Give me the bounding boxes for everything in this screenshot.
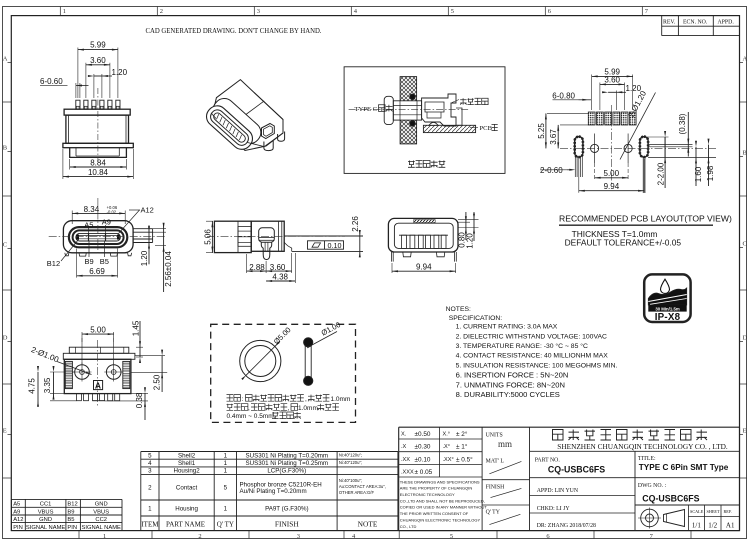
detail box dashed xyxy=(211,324,356,422)
svg-text:OTHER AREA:G/F: OTHER AREA:G/F xyxy=(339,490,375,495)
svg-text:SUS301 Ni Plating T=0.20m: SUS301 Ni Plating T=0.20mm xyxy=(245,452,328,459)
svg-text:5.06: 5.06 xyxy=(203,229,212,245)
assembly label pcb xyxy=(470,124,498,132)
dim 2.50 bottom xyxy=(131,350,167,392)
svg-text:NOTES:: NOTES: xyxy=(446,306,471,313)
svg-text:5: 5 xyxy=(450,533,453,540)
approvals xyxy=(530,488,636,529)
svg-text:± 1°: ± 1° xyxy=(456,443,468,451)
svg-text:C: C xyxy=(743,241,747,248)
svg-text:B12: B12 xyxy=(67,502,77,508)
assembly plug xyxy=(384,96,421,124)
bom table xyxy=(141,452,398,531)
svg-text:4: 4 xyxy=(148,460,152,467)
svg-text:SIGNAL NAME: SIGNAL NAME xyxy=(26,525,66,531)
svg-text:2.50: 2.50 xyxy=(153,374,162,390)
dim 3.60 side xyxy=(266,253,292,273)
svg-text:(0.38): (0.38) xyxy=(678,113,687,134)
proprietary note xyxy=(400,479,488,528)
svg-text:1: 1 xyxy=(224,506,228,513)
dim 0.38 bottom xyxy=(105,387,148,420)
dim 10.84 front xyxy=(63,149,133,179)
rear view shell xyxy=(388,218,458,252)
svg-text:5. INSULATION RESISTANCE: 10: 5. INSULATION RESISTANCE: 100 MEGOHMS MI… xyxy=(456,362,618,369)
svg-text:A9: A9 xyxy=(102,218,111,227)
side view tab and flatness xyxy=(284,236,363,251)
assembly label receptacle xyxy=(452,98,488,104)
svg-text:5.00: 5.00 xyxy=(90,326,106,335)
svg-text:D: D xyxy=(3,335,8,342)
bottom view feet row xyxy=(76,394,119,401)
svg-text:2-2.00: 2-2.00 xyxy=(656,162,665,185)
svg-text:APPD.: APPD. xyxy=(718,20,735,26)
svg-text:5: 5 xyxy=(224,485,228,492)
svg-text:4.38: 4.38 xyxy=(272,273,288,282)
assembly receptacle xyxy=(422,94,462,126)
top view outer shell xyxy=(63,221,133,253)
svg-text:2-Ø1.00: 2-Ø1.00 xyxy=(30,345,61,364)
svg-text:1.45: 1.45 xyxy=(131,320,140,336)
svg-text:ITEM: ITEM xyxy=(141,521,159,529)
svg-text:1.60: 1.60 xyxy=(694,166,703,182)
recommended pcb layout title xyxy=(559,214,732,248)
dim 2.56 top view xyxy=(153,223,173,292)
svg-text:8.84: 8.84 xyxy=(90,158,106,167)
svg-text:0.10: 0.10 xyxy=(328,241,342,250)
svg-text:5.00: 5.00 xyxy=(604,169,620,178)
pcb slot lower lines xyxy=(575,157,645,193)
svg-text:,: , xyxy=(248,405,250,412)
label B12 xyxy=(47,240,79,269)
svg-text:SUS301 Ni Plating T=0.25m: SUS301 Ni Plating T=0.25mm xyxy=(245,460,328,467)
svg-text:Shell2: Shell2 xyxy=(178,452,196,459)
detail dia1.00 leader xyxy=(307,320,342,348)
svg-text:,: , xyxy=(305,396,307,403)
svg-text:±0.30: ±0.30 xyxy=(415,444,431,451)
dwg no cell xyxy=(635,483,740,505)
rear view comb xyxy=(399,235,448,248)
side view right block xyxy=(251,221,292,259)
dim 1.20 rear xyxy=(458,212,479,249)
top view tongue stadium xyxy=(69,227,127,247)
svg-text:2.88: 2.88 xyxy=(249,263,265,272)
isometric flange xyxy=(209,94,265,148)
top view contacts xyxy=(76,233,120,241)
svg-text:TYPE C: TYPE C xyxy=(355,106,378,113)
svg-text:1: 1 xyxy=(224,468,228,475)
svg-text:Ø5.00: Ø5.00 xyxy=(272,325,293,346)
label A9 xyxy=(102,218,111,234)
svg-text:,: , xyxy=(288,405,290,412)
svg-text:7. UNMATING FORCE: 8N~20N: 7. UNMATING FORCE: 8N~20N xyxy=(456,380,565,389)
svg-text:6.69: 6.69 xyxy=(89,267,105,276)
detail chinese note xyxy=(227,395,351,420)
dim 5.06 side xyxy=(203,221,213,252)
dim 1.20 top view xyxy=(140,225,166,266)
svg-text:CC2: CC2 xyxy=(95,517,107,523)
svg-text:PART NAME: PART NAME xyxy=(166,521,205,529)
pin assignment table xyxy=(11,499,122,530)
svg-text:B9: B9 xyxy=(67,510,74,516)
svg-text:± 2°: ± 2° xyxy=(456,430,468,438)
svg-text:GND: GND xyxy=(95,502,108,508)
svg-text:MAT' L: MAT' L xyxy=(486,458,505,464)
svg-text:1/1: 1/1 xyxy=(692,521,701,529)
assembly panel wall hatched xyxy=(400,77,417,144)
svg-text:FINISH: FINISH xyxy=(275,520,299,529)
dim 2-dia1.00 bottom leader xyxy=(30,345,92,374)
svg-text:GND: GND xyxy=(39,517,52,523)
isometric front rim xyxy=(202,102,256,154)
dim 9.94 rear xyxy=(392,263,456,273)
svg-text:3.60: 3.60 xyxy=(604,75,620,84)
svg-text:PCB: PCB xyxy=(480,125,493,132)
svg-text:SCALE: SCALE xyxy=(690,509,704,514)
dim 9.94 pcb xyxy=(579,158,644,193)
svg-text:THE PRIOR WRITTEN CONSENT: THE PRIOR WRITTEN CONSENT OF xyxy=(400,511,469,516)
dim 4.38 side xyxy=(266,253,295,283)
svg-text:2. DIELECTRIC WITHSTAND VOLT: 2. DIELECTRIC WITHSTAND VOLTAGE: 100VAC xyxy=(456,333,607,340)
svg-text:DEFAULT TOLERANCE+/-0.05: DEFAULT TOLERANCE+/-0.05 xyxy=(565,238,682,248)
svg-text:±0.50: ±0.50 xyxy=(415,431,431,438)
bottom view A label xyxy=(94,380,103,390)
dim 4.75 bottom xyxy=(28,366,77,407)
svg-text:7: 7 xyxy=(650,533,654,540)
label B9 xyxy=(85,241,94,266)
svg-text:± 0.5°: ± 0.5° xyxy=(456,455,473,463)
dim 5.25 pcb xyxy=(537,113,589,148)
assembly caption xyxy=(408,161,445,168)
dim 6-0.60 front leader xyxy=(40,77,89,98)
svg-text:3.60: 3.60 xyxy=(90,56,106,65)
svg-text:1: 1 xyxy=(63,8,66,15)
dim 1.20 front xyxy=(88,68,128,98)
scale sheet ref cells xyxy=(688,505,739,531)
dim 1.60 pcb xyxy=(694,141,703,186)
svg-text:1.98: 1.98 xyxy=(706,165,715,181)
dim 2-2.00 pcb xyxy=(646,131,669,188)
svg-text:1: 1 xyxy=(224,452,228,459)
isometric view body xyxy=(211,80,283,151)
side view body xyxy=(214,221,251,252)
dim 6-0.80 pcb leader xyxy=(552,92,591,101)
dim 0.80 rear xyxy=(457,212,478,248)
svg-text:A5: A5 xyxy=(13,502,20,508)
zone tick marks and numbers top xyxy=(60,7,649,16)
zone letters right margin xyxy=(740,56,748,479)
front view pins xyxy=(76,100,120,109)
pcb pads xyxy=(588,112,636,125)
svg-text:3. TEMPERATURE RANGE: -30 °C: 3. TEMPERATURE RANGE: -30 °C ~ 85 °C xyxy=(456,342,588,350)
top view feet xyxy=(65,253,132,256)
svg-text:Au/Ni Plating T=0.20mm: Au/Ni Plating T=0.20mm xyxy=(240,488,307,495)
svg-text:.X°: .X° xyxy=(443,444,451,450)
svg-text:4: 4 xyxy=(352,533,356,540)
label A12 xyxy=(119,205,154,233)
svg-text:30 Min/1.5m: 30 Min/1.5m xyxy=(655,306,680,311)
svg-text:5.25: 5.25 xyxy=(537,123,546,139)
svg-text:3: 3 xyxy=(257,8,260,15)
svg-text:Housing2: Housing2 xyxy=(174,468,201,475)
assembly label type-c plug xyxy=(355,105,393,113)
svg-text:7: 7 xyxy=(645,8,649,15)
svg-text:CO., LTD: CO., LTD xyxy=(400,524,417,529)
svg-text:6: 6 xyxy=(548,8,552,15)
units cell xyxy=(482,432,529,524)
svg-text:CC1: CC1 xyxy=(40,502,52,508)
svg-text:2.26: 2.26 xyxy=(351,216,360,232)
isometric seal ring xyxy=(262,124,275,139)
dim 8.84 front xyxy=(70,158,127,169)
svg-text:.X: .X xyxy=(401,444,407,450)
svg-text:LCP(G.F30%): LCP(G.F30%) xyxy=(267,468,306,475)
svg-text:5.99: 5.99 xyxy=(90,41,106,50)
projection symbol xyxy=(638,508,685,529)
svg-text:PIN: PIN xyxy=(67,525,77,531)
label B5 xyxy=(100,241,109,266)
svg-text:B: B xyxy=(3,145,8,152)
dim 2.88 side xyxy=(247,254,267,273)
svg-text:1.20: 1.20 xyxy=(112,68,128,77)
title block frame xyxy=(399,427,740,530)
svg-text:D: D xyxy=(743,335,748,342)
pcb holes xyxy=(591,144,633,152)
svg-text:TITLE:: TITLE: xyxy=(638,456,656,462)
dim 1.98 pcb xyxy=(706,139,715,186)
svg-text:A: A xyxy=(3,56,8,63)
svg-text:B: B xyxy=(743,150,748,157)
svg-text:-0.02: -0.02 xyxy=(107,210,117,215)
svg-text:A9: A9 xyxy=(13,510,20,516)
svg-text:CAD GENERATED DRAWING. DON': CAD GENERATED DRAWING. DON'T CHANGE BY H… xyxy=(146,26,322,35)
svg-text:A1: A1 xyxy=(726,521,735,529)
dim 3.60 front xyxy=(86,56,110,98)
svg-text:A12: A12 xyxy=(13,517,23,523)
dim 5.99 front xyxy=(78,41,118,99)
svg-text:Shell1: Shell1 xyxy=(178,460,196,467)
svg-text:4: 4 xyxy=(354,8,358,15)
svg-text:Q' TY: Q' TY xyxy=(486,509,501,515)
svg-text:1.0mm: 1.0mm xyxy=(331,396,351,403)
svg-text:1: 1 xyxy=(103,533,106,540)
dim 5.00 bottom xyxy=(82,326,114,365)
bottom view centerlines xyxy=(82,338,114,407)
pcb bottom ref line xyxy=(648,156,716,158)
svg-text:4.75: 4.75 xyxy=(28,378,37,394)
svg-text:B5: B5 xyxy=(67,517,74,523)
dim 3.67 pcb xyxy=(549,125,589,148)
svg-text:Ni:40″100u″;: Ni:40″100u″; xyxy=(339,478,362,483)
svg-text:PIN: PIN xyxy=(13,525,23,531)
svg-text:10.84: 10.84 xyxy=(88,168,109,177)
svg-text:CQ-USBC6FS: CQ-USBC6FS xyxy=(642,494,699,504)
svg-text:B12: B12 xyxy=(47,259,60,268)
svg-text:E: E xyxy=(743,428,747,435)
svg-text:1/2: 1/2 xyxy=(708,521,717,529)
svg-text:E: E xyxy=(3,428,7,435)
company name xyxy=(530,430,740,452)
svg-text:.XX: .XX xyxy=(401,457,410,463)
svg-text:B5: B5 xyxy=(100,257,109,266)
bom rows text xyxy=(141,452,386,528)
svg-text:5: 5 xyxy=(451,8,454,15)
dim (0.38) pcb xyxy=(648,112,692,157)
svg-text:DWG NO. :: DWG NO. : xyxy=(638,483,667,489)
svg-text:PA9T (G.F30%): PA9T (G.F30%) xyxy=(265,506,308,513)
svg-text:NOTE: NOTE xyxy=(358,520,378,529)
svg-text:±0.10: ±0.10 xyxy=(415,456,431,463)
part no cell xyxy=(530,451,740,530)
svg-text:1.20: 1.20 xyxy=(465,233,474,249)
svg-text:FINISH: FINISH xyxy=(486,484,505,490)
svg-text:.XXX: .XXX xyxy=(401,470,414,476)
svg-text:8.34: 8.34 xyxy=(84,205,100,214)
svg-text:1.20: 1.20 xyxy=(140,250,149,266)
svg-text:4. CONTACT RESISTANCE: 40 M: 4. CONTACT RESISTANCE: 40 MILLIONHM MAX xyxy=(456,353,609,360)
svg-text:6-0.60: 6-0.60 xyxy=(40,77,63,86)
svg-text:B9: B9 xyxy=(85,257,94,266)
svg-text:3.60: 3.60 xyxy=(270,263,286,272)
svg-text:CHUANGQIN ELECTRONIC TECHNOLOG: CHUANGQIN ELECTRONIC TECHNOLOGY xyxy=(400,517,481,522)
svg-text:2-Ø1.20: 2-Ø1.20 xyxy=(627,89,649,119)
dim 8.34 top view xyxy=(72,205,125,224)
svg-text:2-0.60: 2-0.60 xyxy=(540,166,563,175)
svg-text:VBUS: VBUS xyxy=(93,510,109,516)
isometric feet xyxy=(264,132,285,151)
notes block xyxy=(446,306,618,399)
dim 2.26 side xyxy=(351,216,361,258)
bottom view holes xyxy=(73,363,124,382)
dim 1.20 pcb xyxy=(602,84,642,110)
svg-text:Q' TY: Q' TY xyxy=(217,521,234,529)
svg-text:6: 6 xyxy=(546,533,550,540)
tolerance texts xyxy=(401,430,473,476)
svg-text:A12: A12 xyxy=(141,205,154,214)
svg-text:.XX°: .XX° xyxy=(443,457,454,463)
svg-text:1.0mm: 1.0mm xyxy=(298,405,318,412)
svg-text:CO.,LTD AND SHALL NOT BE REPRO: CO.,LTD AND SHALL NOT BE REPRODUCED, xyxy=(400,498,485,503)
header notice text xyxy=(146,26,322,35)
dim 6.69 top view xyxy=(77,249,118,278)
svg-text:6-0.80: 6-0.80 xyxy=(552,92,575,101)
svg-text:SHENZHEN CHUANGQIN TECHNOLOG: SHENZHEN CHUANGQIN TECHNOLOGY CO. , LTD. xyxy=(557,442,728,451)
pcb centerlines xyxy=(560,105,716,185)
dim 3.35 bottom xyxy=(43,366,74,400)
svg-text:Ni:40″120u″;: Ni:40″120u″; xyxy=(339,460,362,465)
svg-text:3.35: 3.35 xyxy=(43,377,52,393)
svg-text:UNITS: UNITS xyxy=(486,432,503,438)
svg-text:IP-X8: IP-X8 xyxy=(655,312,681,323)
front view centerline xyxy=(97,88,99,162)
dim 2-dia1.20 pcb leader xyxy=(620,89,656,160)
svg-text:SIGNAL NAME: SIGNAL NAME xyxy=(81,525,121,531)
svg-text:Ni:40″120u″;: Ni:40″120u″; xyxy=(339,453,362,458)
svg-text:2: 2 xyxy=(198,533,201,540)
svg-text:3: 3 xyxy=(297,533,300,540)
svg-text:Housing: Housing xyxy=(175,506,198,513)
svg-text:PART NO.: PART NO. xyxy=(535,457,561,463)
zone letters left margin xyxy=(3,56,12,479)
rear view feet xyxy=(392,252,457,262)
svg-text:TYPE C 6Pin SMT Type: TYPE C 6Pin SMT Type xyxy=(639,463,729,472)
svg-text:ELECTRONIC TECHNOLOGY: ELECTRONIC TECHNOLOGY xyxy=(400,492,455,497)
svg-text:5: 5 xyxy=(148,452,152,459)
svg-text:Contact: Contact xyxy=(176,485,198,492)
svg-text:RECOMMENDED PCB LAYOUT(TOP: RECOMMENDED PCB LAYOUT(TOP VIEW) xyxy=(559,214,732,224)
dim 1.45 bottom xyxy=(131,320,143,363)
svg-text:6. INSERTION FORCE : 5N~20: 6. INSERTION FORCE : 5N~20N xyxy=(456,371,569,380)
svg-text:REF.: REF. xyxy=(724,509,732,514)
svg-text:mm: mm xyxy=(498,439,512,449)
svg-text:± 0.05: ± 0.05 xyxy=(415,469,433,476)
svg-text:3: 3 xyxy=(148,468,152,475)
svg-text:2.56±0.04: 2.56±0.04 xyxy=(164,251,173,287)
svg-text:SHEET: SHEET xyxy=(707,509,720,514)
detail ring xyxy=(240,340,281,381)
svg-text:Au:CONTACT AREA:3u″,: Au:CONTACT AREA:3u″, xyxy=(339,484,386,489)
svg-text:A: A xyxy=(743,56,748,63)
side view centerline xyxy=(207,235,345,237)
title cell xyxy=(638,456,729,472)
svg-text:SPECIFICATION:: SPECIFICATION: xyxy=(449,315,503,322)
assembly centerline xyxy=(349,108,470,110)
assembly pcb hatched xyxy=(423,122,475,132)
svg-text:9.94: 9.94 xyxy=(416,263,432,272)
svg-text:X.: X. xyxy=(401,432,407,438)
svg-text:0.4mm ~ 0.5mm,: 0.4mm ~ 0.5mm, xyxy=(227,413,276,420)
pcb slots ovals xyxy=(575,137,648,158)
svg-text:ARE THE PROPERTY OF CHUANGQIN: ARE THE PROPERTY OF CHUANGQIN xyxy=(400,486,473,491)
svg-text:0.38: 0.38 xyxy=(135,392,144,408)
zone tick marks and numbers bottom xyxy=(79,531,691,540)
assembly diagram box xyxy=(344,67,505,174)
svg-text:REV.: REV. xyxy=(663,20,676,26)
svg-text:2: 2 xyxy=(148,485,152,492)
dim 5.00 pcb xyxy=(595,169,629,179)
revision table xyxy=(662,16,740,36)
svg-text:APPD: LIN YUN: APPD: LIN YUN xyxy=(537,488,579,494)
svg-text:2: 2 xyxy=(160,8,163,15)
assembly o-ring dots xyxy=(410,94,415,126)
dim 5.99 pcb xyxy=(592,67,633,110)
dim 3.60 pcb xyxy=(600,75,625,110)
front view body xyxy=(63,109,133,157)
isometric detail lines xyxy=(212,114,264,147)
bottom view body xyxy=(64,359,131,393)
label A5 xyxy=(84,220,93,233)
svg-text:DR: ZHANG 2018/07/28: DR: ZHANG 2018/07/28 xyxy=(537,523,596,529)
svg-text:9.94: 9.94 xyxy=(604,182,620,191)
detail o-ring section xyxy=(304,338,313,386)
svg-text::: : xyxy=(242,396,244,403)
ipx8 icon xyxy=(644,274,690,323)
svg-text:CQ-USBC6FS: CQ-USBC6FS xyxy=(548,464,605,474)
top view right tab xyxy=(133,229,153,243)
svg-text:C: C xyxy=(3,242,7,249)
detail dia5.00 leader xyxy=(241,325,292,380)
svg-text:ECN. NO.: ECN. NO. xyxy=(683,20,708,26)
svg-text:THESE DRAWINGS AND SPECIFICATI: THESE DRAWINGS AND SPECIFICATIONS xyxy=(400,479,480,484)
svg-text:CHKD: LI JY: CHKD: LI JY xyxy=(537,506,571,512)
svg-text:1: 1 xyxy=(224,460,228,467)
svg-text:8. DURABILITY:5000 CYCLES: 8. DURABILITY:5000 CYCLES xyxy=(456,390,560,399)
bottom view flange xyxy=(63,347,135,359)
svg-text:X.°: X.° xyxy=(443,432,451,438)
svg-text:VBUS: VBUS xyxy=(38,510,54,516)
svg-text:A: A xyxy=(95,380,101,390)
svg-text:3.67: 3.67 xyxy=(549,129,558,145)
svg-text:1: 1 xyxy=(148,506,152,513)
